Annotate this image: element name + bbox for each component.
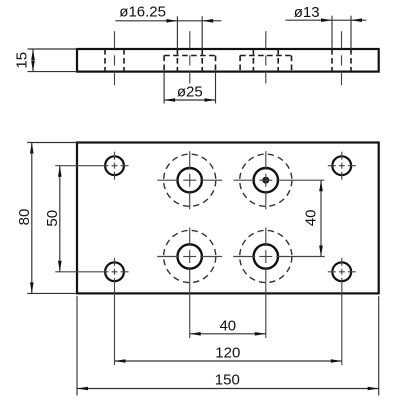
dimension ø25 line bbox=[164, 99, 215, 101]
right corner hole centerline (side view) bbox=[341, 31, 343, 48]
dimension ø13 extension lines bbox=[331, 16, 333, 49]
big hole top-right counterbore dashed circle bbox=[240, 154, 292, 206]
dimension 120 line bbox=[115, 360, 342, 362]
svg-text:ø16.25: ø16.25 bbox=[119, 4, 166, 21]
corner hole bottom-right circle bbox=[332, 262, 351, 281]
hidden wall lines, left corner hole (side view) bbox=[104, 49, 106, 72]
dimension 150 line bbox=[77, 388, 379, 390]
big hole bottom-right bore circle bbox=[254, 244, 278, 268]
big hole top-left centerlines bbox=[157, 179, 179, 181]
svg-text:40: 40 bbox=[302, 210, 319, 227]
hidden wall lines, right corner hole (side view) bbox=[331, 49, 333, 72]
dimension ø25 extension lines bbox=[163, 72, 165, 104]
dimension 80 extension lines bbox=[27, 142, 77, 144]
big hole bottom-right counterbore dashed circle bbox=[240, 230, 292, 282]
svg-text:ø25: ø25 bbox=[177, 84, 203, 101]
corner hole top-left centerlines (extended left for 50 dim) bbox=[55, 165, 108, 167]
dimension 150 extension lines bbox=[76, 296, 78, 395]
big hole top-left counterbore dashed circle bbox=[164, 154, 216, 206]
dimension 80 line bbox=[31, 143, 33, 294]
right big hole centerline (side view) bbox=[265, 31, 267, 48]
svg-text:80: 80 bbox=[16, 209, 33, 226]
svg-text:150: 150 bbox=[215, 372, 240, 389]
dimension 50 line bbox=[59, 166, 61, 272]
dimension ø13 line bbox=[286, 19, 367, 21]
hidden counterbore outline, right big hole (side view) bbox=[239, 56, 241, 72]
dimension 15 line bbox=[32, 49, 34, 72]
big hole bottom-left bore circle bbox=[178, 244, 202, 268]
corner hole bottom-right centerlines (extended down for 120 dim) bbox=[328, 271, 336, 273]
side view plate outline bbox=[77, 49, 379, 72]
dimension ø16.25 line bbox=[115, 20, 221, 22]
svg-text:50: 50 bbox=[44, 210, 61, 227]
corner hole bottom-left circle bbox=[105, 262, 124, 281]
corner hole top-right centerlines bbox=[328, 165, 336, 167]
left big hole centerline (side view) bbox=[189, 31, 191, 48]
left corner hole centerline (side view) bbox=[114, 31, 116, 48]
hidden through-hole walls, right big hole (side view) bbox=[252, 49, 254, 72]
big hole top-right centerlines (extended right for 40 dim) bbox=[233, 179, 255, 181]
corner hole top-right circle bbox=[332, 156, 351, 175]
big hole bottom-right centerlines (extended right for 40 dim, down for 40 dim) bbox=[233, 256, 255, 258]
big hole bottom-left counterbore dashed circle bbox=[164, 230, 216, 282]
big hole top-left bore circle bbox=[178, 168, 202, 192]
plan view plate outline bbox=[77, 143, 379, 294]
svg-text:15: 15 bbox=[14, 52, 31, 69]
dimension 40 (right) line bbox=[320, 180, 322, 256]
corner hole top-left circle bbox=[105, 156, 124, 175]
dimension 40 (bottom) line bbox=[190, 333, 266, 335]
big hole top-right bore circle bbox=[254, 168, 278, 192]
dimension ø16.25 extension lines bbox=[176, 16, 178, 49]
svg-text:120: 120 bbox=[215, 345, 240, 362]
big hole bottom-left centerlines (extended down for 40 dim) bbox=[157, 256, 179, 258]
big hole top-right center point dot bbox=[262, 177, 269, 184]
svg-text:ø13: ø13 bbox=[294, 4, 320, 21]
svg-text:40: 40 bbox=[219, 318, 236, 335]
hidden through-hole walls, left big hole (side view) bbox=[176, 49, 178, 72]
dimension 15 extension lines bbox=[28, 48, 78, 50]
hidden counterbore outline, left big hole (side view) bbox=[163, 56, 165, 72]
corner hole bottom-left centerlines (extended left for 50 dim, down for 120 dim) bbox=[55, 271, 108, 273]
